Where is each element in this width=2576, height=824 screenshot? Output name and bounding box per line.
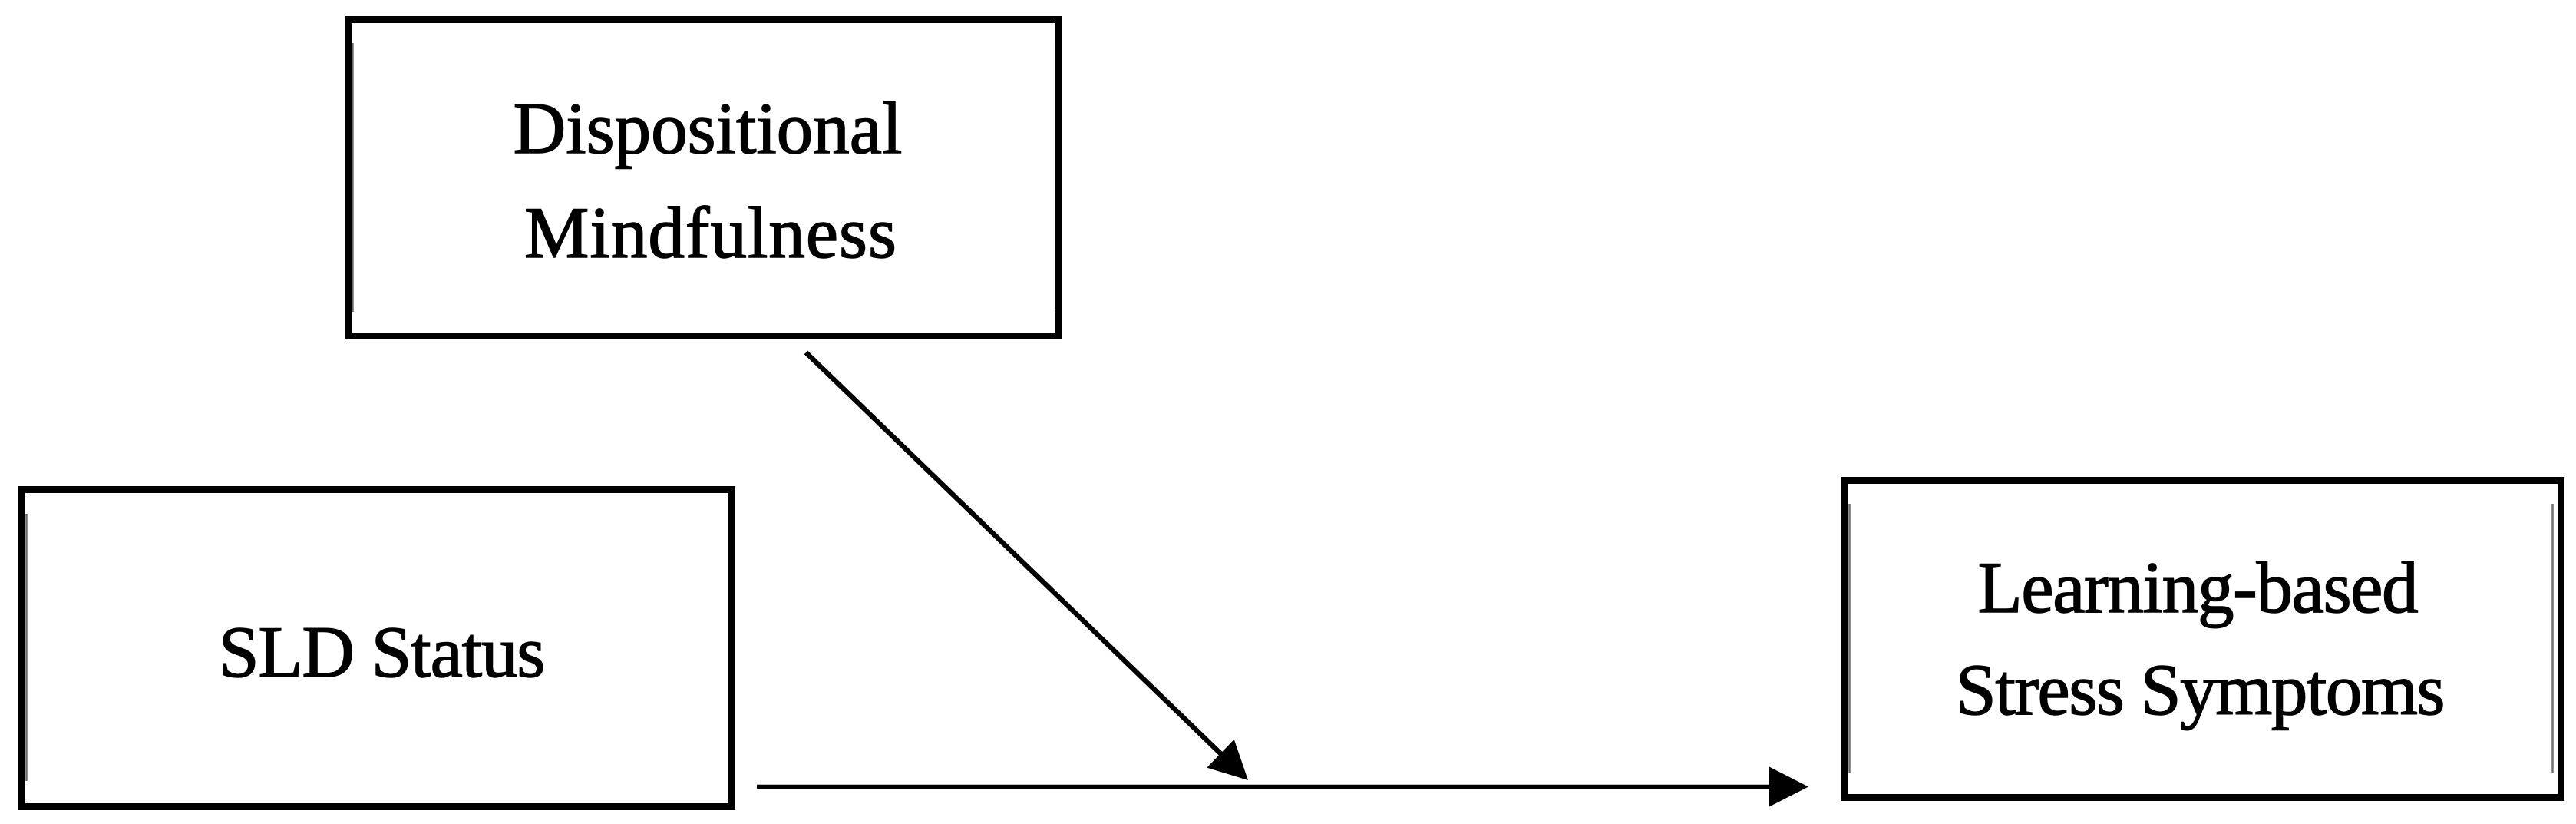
svg-text:Dispositional: Dispositional: [514, 88, 903, 169]
svg-text:SLD Status: SLD Status: [219, 611, 544, 693]
svg-text:Stress Symptoms: Stress Symptoms: [1956, 649, 2444, 730]
svg-text:Learning-based: Learning-based: [1978, 547, 2418, 628]
svg-text:Mindfulness: Mindfulness: [524, 192, 897, 273]
